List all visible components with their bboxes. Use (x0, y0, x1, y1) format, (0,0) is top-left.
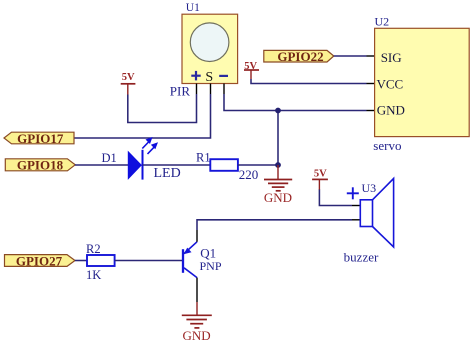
wire R1 to junction (238, 164, 278, 166)
svg-text:LED: LED (154, 166, 181, 181)
junction dot at GND net (275, 108, 281, 114)
GPIO17 net flag (4, 131, 74, 146)
wire 5V to U1 + pin (128, 94, 197, 123)
U1 pin S stub (210, 84, 212, 95)
svg-text:S: S (205, 70, 213, 85)
wire R2 to Q1 base (115, 260, 182, 262)
svg-text:GPIO22: GPIO22 (277, 49, 323, 64)
buzzer U3 symbol (360, 179, 393, 248)
wire U1 S pin to GPIO17 (75, 94, 211, 138)
Q1 emitter pin stub (196, 230, 198, 242)
buzzer plus mark (347, 187, 359, 199)
ground symbol GND (mid) (264, 165, 292, 191)
wire 5V to U2 VCC (251, 79, 367, 84)
U1 pin label + (191, 71, 200, 81)
svg-text:PIR: PIR (170, 83, 191, 98)
svg-text:R2: R2 (86, 242, 101, 256)
LED D1 (128, 150, 142, 180)
buzzer top pin stub (352, 205, 360, 207)
U1 pin minus stub (223, 84, 225, 95)
svg-text:U3: U3 (362, 181, 377, 195)
svg-text:GND: GND (377, 102, 405, 117)
U1 pin + stub (196, 84, 198, 95)
svg-text:GPIO27: GPIO27 (16, 253, 63, 268)
wire LED cathode to R1 (143, 164, 211, 166)
U2 SIG pin stub (367, 55, 375, 57)
junction dot at R1 (275, 162, 281, 168)
wire U1 minus pin to U2 GND (224, 94, 367, 111)
svg-text:5V: 5V (122, 72, 135, 83)
svg-text:5V: 5V (314, 169, 327, 180)
servo U2 body (375, 28, 470, 136)
svg-text:D1: D1 (102, 151, 117, 165)
svg-text:VCC: VCC (377, 77, 404, 92)
svg-text:220: 220 (239, 167, 258, 182)
GPIO22 net flag (264, 49, 334, 64)
svg-text:1K: 1K (86, 268, 101, 282)
wire junction up to U2 GND net (277, 111, 279, 166)
svg-text:GND: GND (264, 190, 292, 205)
wire GPIO18 to LED anode (75, 164, 129, 166)
ground symbol GND (bottom) (182, 302, 212, 328)
svg-text:GPIO18: GPIO18 (17, 158, 64, 173)
transistor Q1 base bar (182, 249, 184, 273)
wire GPIO27 to R2 (75, 260, 87, 262)
svg-text:GPIO17: GPIO17 (17, 131, 64, 146)
5V power symbol (buzzer) (312, 169, 328, 190)
wire 5V to buzzer top pin (319, 190, 352, 206)
svg-text:buzzer: buzzer (344, 249, 379, 264)
PIR sensor U1 body (182, 14, 238, 83)
U1 pin label minus (219, 75, 228, 77)
GPIO18 net flag (5, 158, 75, 173)
svg-text:SIG: SIG (381, 50, 402, 65)
5V power symbol (left of U1) (121, 72, 136, 95)
resistor R2 (87, 255, 115, 266)
resistor R1 (210, 159, 238, 171)
svg-text:R1: R1 (196, 151, 211, 165)
Q1 collector diagonal (184, 268, 197, 278)
svg-text:GND: GND (183, 328, 211, 343)
LED light arrow 1 (142, 137, 152, 149)
GPIO27 net flag (5, 253, 76, 268)
svg-text:servo: servo (373, 138, 401, 153)
LED light arrow 2 (148, 142, 159, 154)
Q1 emitter diagonal with arrow (184, 242, 198, 254)
svg-text:U1: U1 (186, 2, 200, 14)
wire GPIO22 to U2 SIG (334, 55, 367, 57)
U2 GND pin stub (367, 110, 375, 112)
5V power symbol (U2 VCC) (244, 61, 259, 79)
wire Q1 emitter to buzzer (197, 220, 352, 230)
buzzer bottom pin stub (352, 219, 360, 221)
Q1 collector pin stub (196, 278, 198, 302)
svg-text:PNP: PNP (200, 259, 222, 273)
svg-text:U2: U2 (375, 14, 390, 28)
U2 VCC pin stub (367, 83, 375, 85)
